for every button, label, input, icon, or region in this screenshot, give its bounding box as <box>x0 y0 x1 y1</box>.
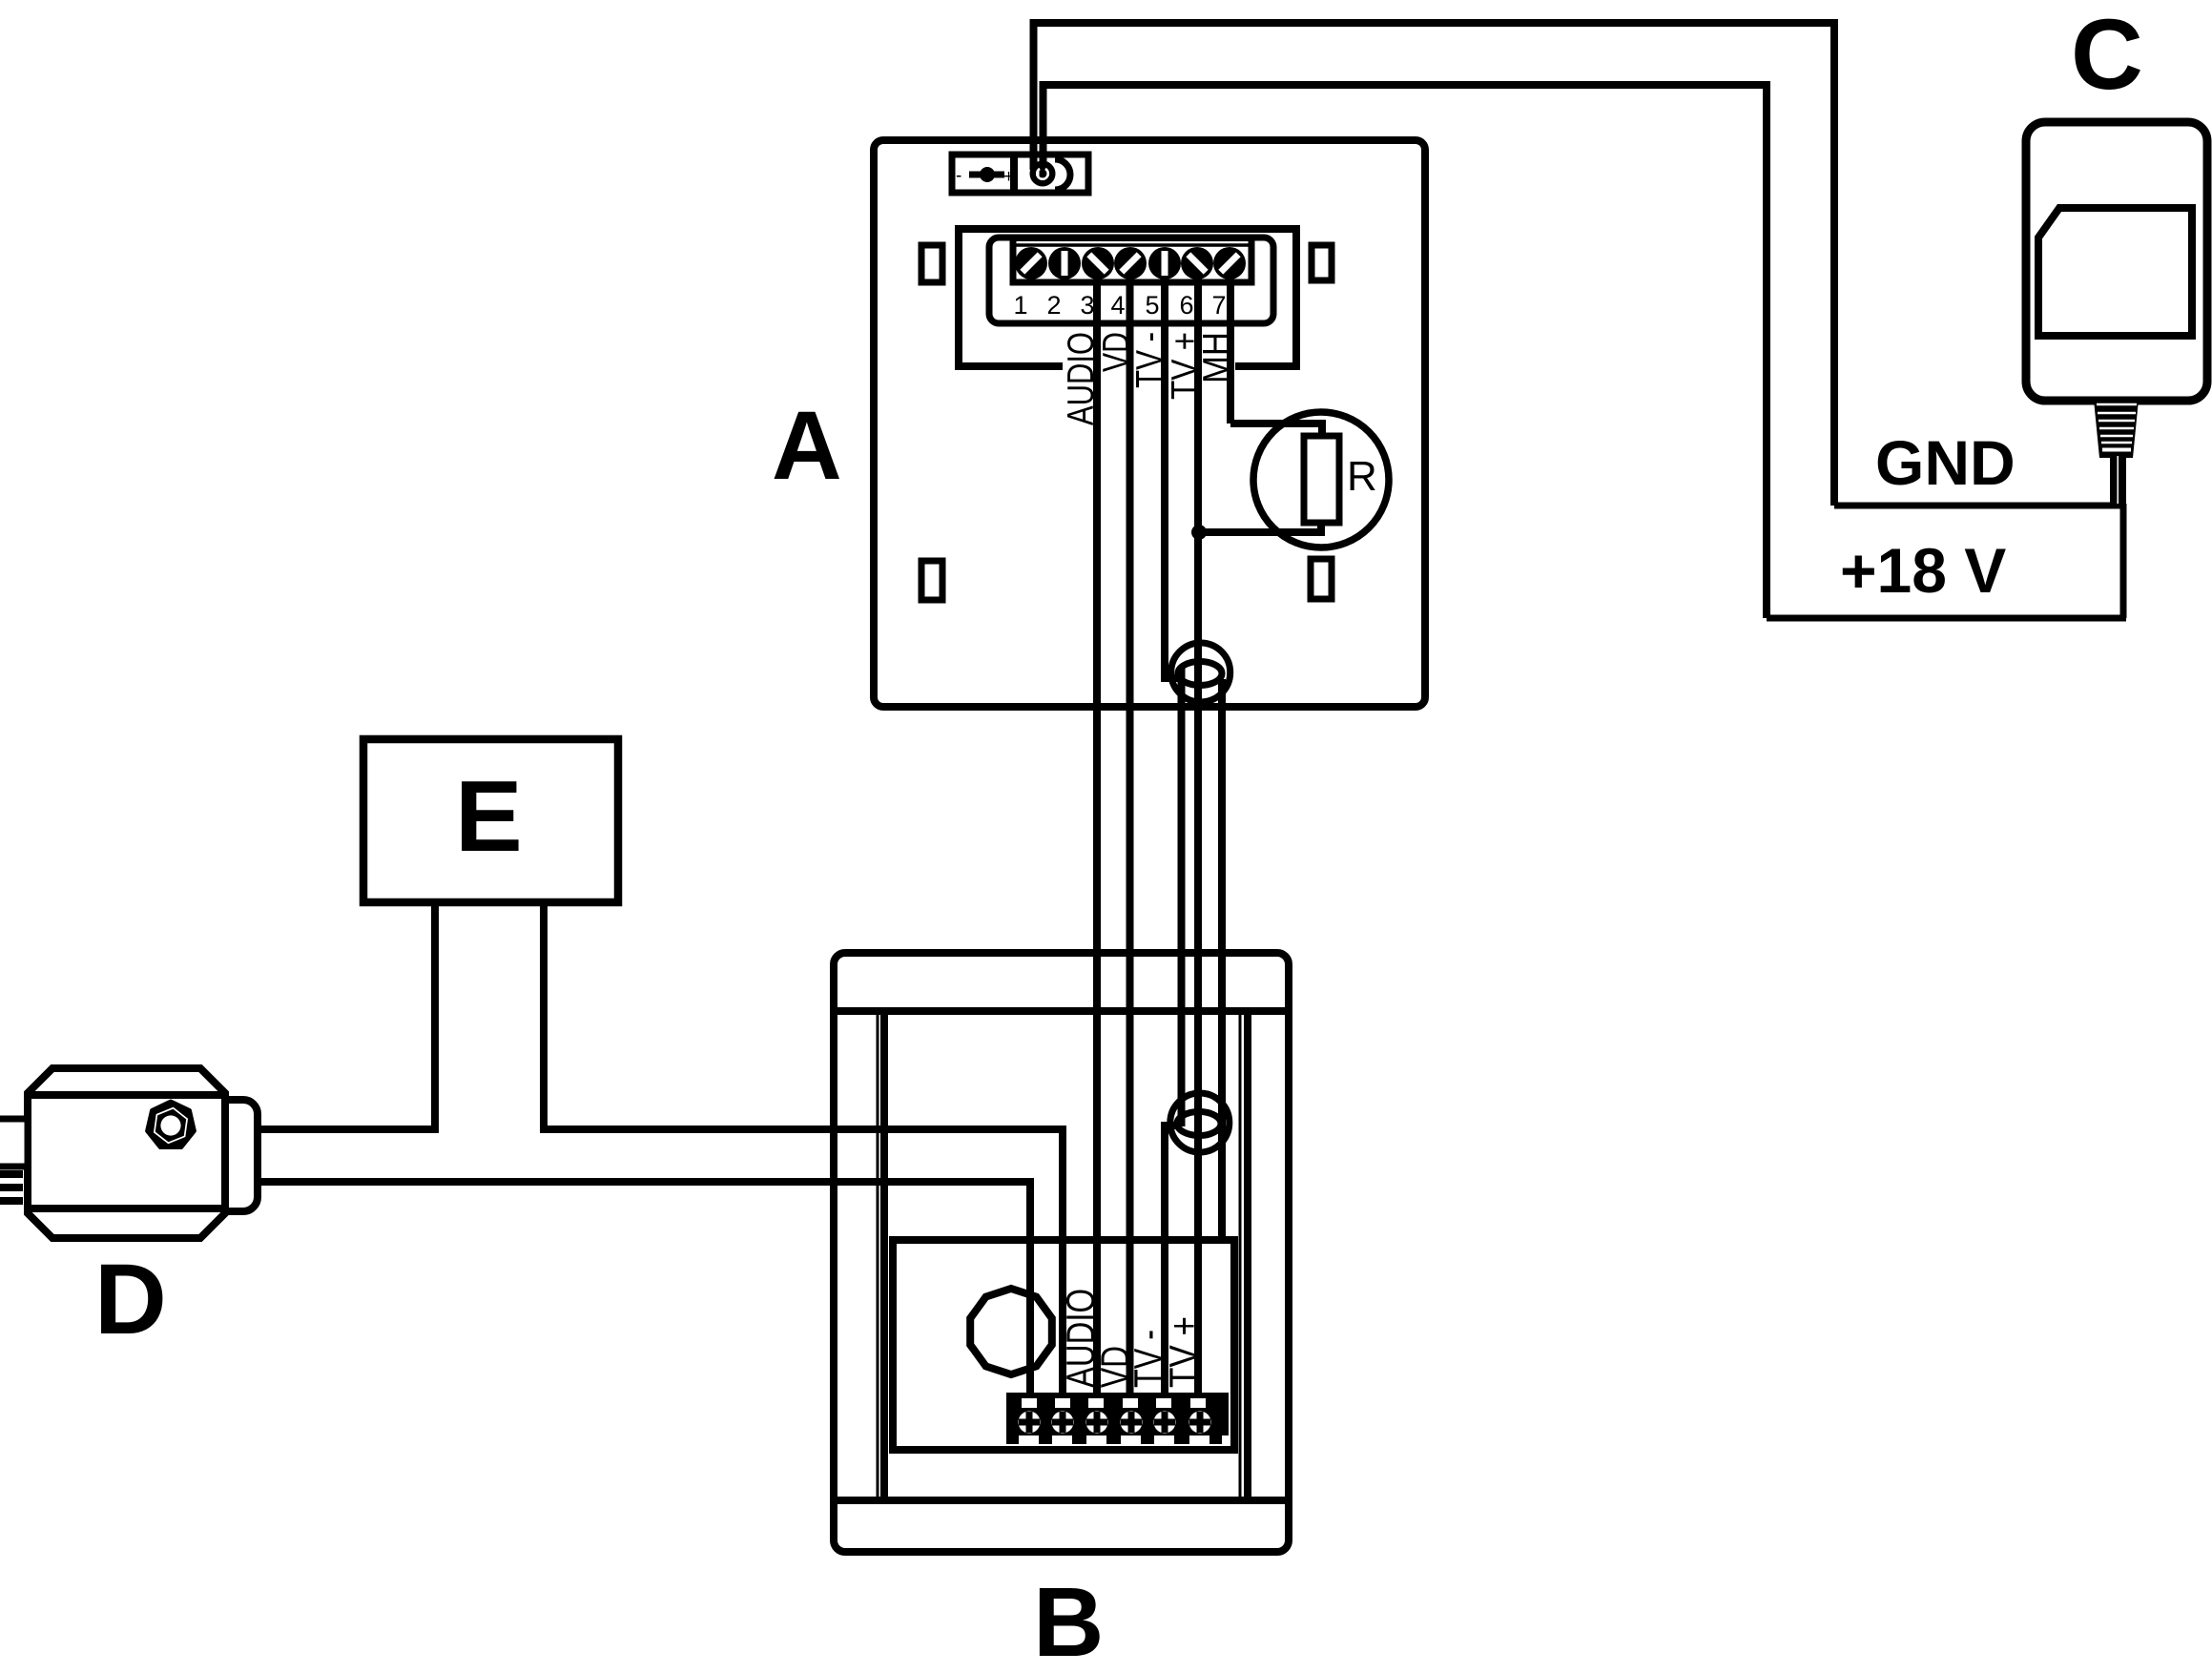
svg-text:5: 5 <box>1145 291 1159 320</box>
svg-text:A: A <box>772 391 842 500</box>
svg-text:7: 7 <box>1211 291 1226 320</box>
svg-text:+18 V: +18 V <box>1840 535 2006 606</box>
svg-text:R: R <box>1347 453 1377 500</box>
svg-text:E: E <box>455 760 523 873</box>
svg-text:1: 1 <box>1013 291 1027 320</box>
svg-text:4: 4 <box>1110 291 1125 320</box>
svg-text:TV +: TV + <box>1161 1316 1206 1388</box>
svg-text:3: 3 <box>1080 291 1094 320</box>
svg-text:+: + <box>1003 167 1014 187</box>
svg-text:-: - <box>956 166 961 186</box>
svg-text:D: D <box>94 1244 167 1355</box>
svg-text:2: 2 <box>1046 291 1061 320</box>
svg-text:B: B <box>1033 1567 1104 1673</box>
svg-text:MH: MH <box>1196 332 1237 383</box>
svg-text:C: C <box>2071 0 2143 111</box>
svg-text:GND: GND <box>1875 427 2016 498</box>
svg-text:6: 6 <box>1179 291 1193 320</box>
